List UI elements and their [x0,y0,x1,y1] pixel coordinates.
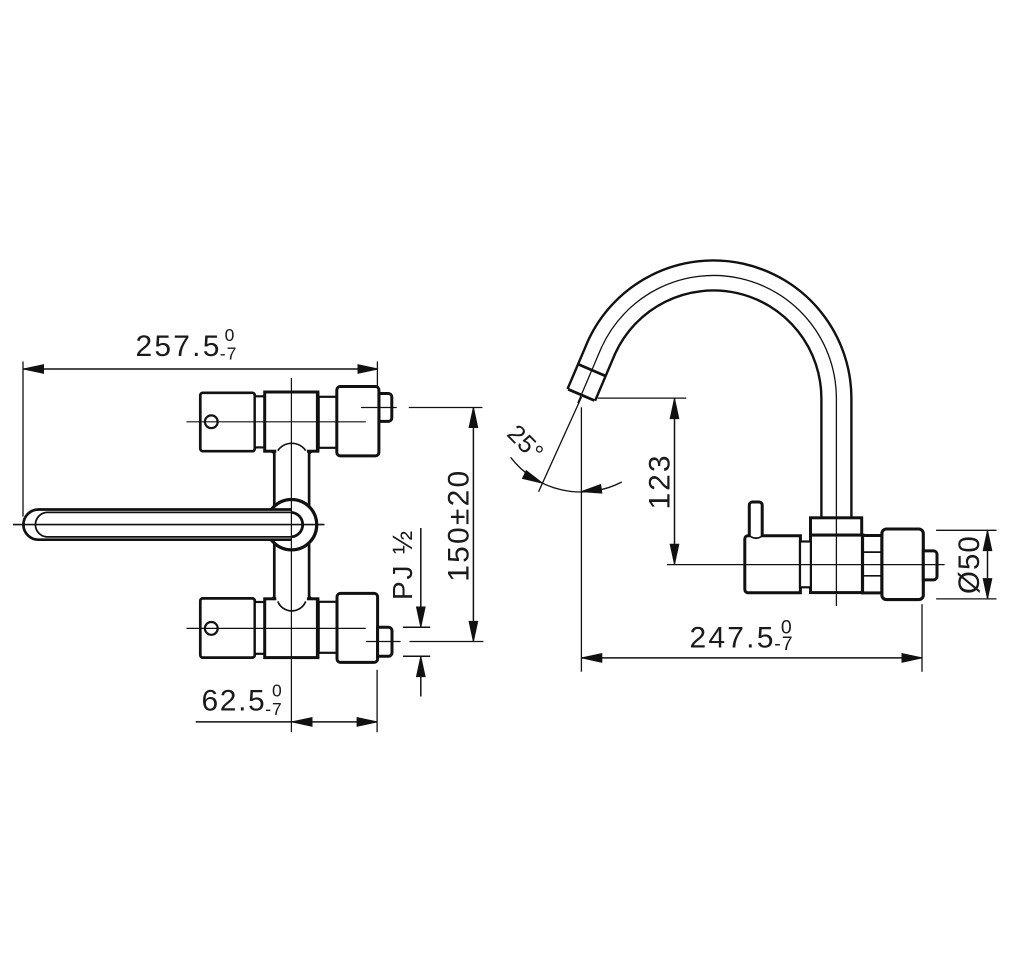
valve body (side view) [811,535,864,593]
top valve neck1 [255,396,265,447]
handle lever stick [749,502,762,538]
bottom nipple centerline + leader [366,641,483,643]
LEFT VIEW GROUP [13,325,483,732]
svg-text:-7: -7 [220,344,238,364]
rear nipple [923,551,937,580]
25 deg diagonal line [539,397,582,492]
spout centerline [13,524,325,526]
spout mount block [811,518,862,535]
svg-text:Ø50: Ø50 [953,535,986,594]
top valve connector [337,387,379,456]
RIGHT VIEW GROUP [501,275,996,671]
top valve body [265,392,318,451]
dim 150±20 [443,408,478,642]
bottom valve body [265,599,318,658]
top valve neck2 [319,397,337,448]
tube thin centerline (side) [578,275,837,606]
bottom valve nipple [378,627,392,656]
svg-text:0: 0 [272,681,283,701]
dim 62.5 [196,670,378,733]
svg-text:-7: -7 [774,633,793,655]
svg-text:247.5: 247.5 [690,621,776,654]
spout swivel circle [266,500,316,550]
bottom valve connector [337,593,378,662]
handle block (side view) [745,536,801,593]
bottom valve tee opening [276,596,307,611]
dim 123 [598,398,687,564]
svg-text:257.5: 257.5 [136,330,222,363]
svg-text:62.5: 62.5 [202,685,267,718]
faucet vertical centerline [290,378,292,732]
top valve handle [200,393,255,451]
25 deg arc with arrows [501,419,621,495]
top valve tee opening [276,443,307,454]
bottom valve neck2 [319,602,337,653]
neck (side view) [800,542,811,588]
top valve nipple [379,394,392,422]
dim 257.5 text [136,325,238,364]
svg-text:PJ ½: PJ ½ [387,529,418,600]
bottom valve centerline [187,627,366,629]
bottom valve handle [200,598,255,657]
top nipple centerline + leader [361,407,482,409]
top valve centerline [187,421,366,423]
nut section [863,536,882,593]
valve horizontal centerline (side) [667,564,945,566]
bottom valve neck1 [255,602,265,654]
svg-text:0: 0 [225,325,236,345]
wall flange [882,529,923,600]
spout tip aerator joint line [578,364,606,376]
vertical tube body wall left [270,451,313,600]
spout tip end face [568,389,594,400]
dim 257.5 line [23,362,378,517]
svg-text:150±20: 150±20 [443,469,476,582]
spout bar (horizontal) [23,510,302,540]
dim 247.5 [581,407,922,672]
gooseneck spout tube [581,275,836,518]
svg-text:-7: -7 [265,699,283,719]
dim PJ 1/2 [387,528,430,697]
svg-text:123: 123 [644,453,677,509]
dim diameter 50 [936,530,996,599]
